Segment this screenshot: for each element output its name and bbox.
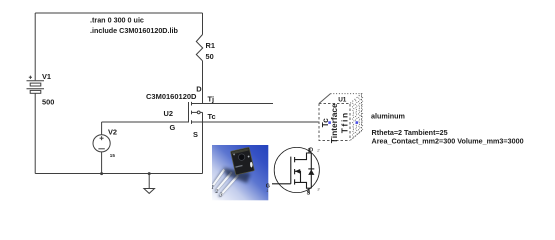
svg-text:15: 15 <box>110 153 116 158</box>
channel tick mid <box>191 111 193 115</box>
wire left lower <box>34 93 36 173</box>
body shadow <box>224 168 251 184</box>
package body <box>231 147 255 175</box>
svg-text:Area_Contact_mm2=300 Volume_mm: Area_Contact_mm2=300 Volume_mm3=3000 <box>372 136 524 145</box>
svg-text:3: 3 <box>219 193 223 199</box>
svg-text:500: 500 <box>42 98 54 107</box>
wire Tj net <box>192 103 274 105</box>
wire resistor to drain <box>202 61 204 104</box>
svg-text:2: 2 <box>215 189 218 195</box>
junction V2-bottom <box>100 172 103 175</box>
channel ticks <box>294 157 296 162</box>
diode cathode bar <box>308 168 314 170</box>
svg-text:R1: R1 <box>206 41 215 50</box>
mosfet symbol circle <box>272 147 319 193</box>
leg shadows <box>211 170 238 198</box>
body arrow line <box>295 171 301 182</box>
svg-text:G: G <box>170 123 176 132</box>
photo TO-247 package <box>211 145 269 200</box>
top-left slant <box>319 94 331 104</box>
diode vertical <box>310 153 312 188</box>
wire left upper <box>34 13 36 80</box>
drain path <box>295 153 312 160</box>
junction ground-bottom <box>148 172 151 175</box>
front face dashed <box>319 104 350 141</box>
channel tick bottom <box>191 120 193 124</box>
wire body/source vertical <box>202 112 204 173</box>
svg-text:C3M0160120D: C3M0160120D <box>146 92 197 101</box>
diode triangle <box>308 170 314 175</box>
svg-text:.include C3M0160120D.lib: .include C3M0160120D.lib <box>90 26 178 35</box>
svg-text:Tj: Tj <box>208 95 215 104</box>
svg-text:50: 50 <box>206 52 214 61</box>
wire Tc net <box>192 121 319 123</box>
svg-text:D: D <box>309 148 313 154</box>
D stub <box>308 148 310 153</box>
svg-text:U2: U2 <box>164 109 173 118</box>
svg-text:U1: U1 <box>338 96 347 103</box>
fins zigzag <box>353 103 355 139</box>
svg-text:.tran 0 300 0 uic: .tran 0 300 0 uic <box>90 16 144 25</box>
pin dot Tfin <box>356 121 359 124</box>
pin dot Tc-Tinterface <box>328 121 331 124</box>
legs <box>212 169 239 197</box>
mosfet U2 <box>189 102 203 174</box>
source path <box>295 182 312 188</box>
gate bar <box>290 157 292 184</box>
svg-text:V1: V1 <box>42 72 51 81</box>
wire top <box>35 12 202 14</box>
gate wire <box>272 183 291 185</box>
svg-text:V2: V2 <box>108 127 117 136</box>
resistor R1 <box>196 35 202 61</box>
svg-text:Tfin: Tfin <box>339 111 349 133</box>
right face dotted <box>350 94 362 141</box>
ground <box>144 174 155 194</box>
channel tick top <box>191 102 193 106</box>
svg-text:1: 1 <box>211 185 214 191</box>
battery V1 <box>27 76 45 94</box>
body arrow head <box>295 169 300 174</box>
wire gate <box>102 121 189 123</box>
svg-text:1: 1 <box>266 188 268 193</box>
svg-text:Tc: Tc <box>208 112 216 121</box>
svg-text:S: S <box>307 191 311 197</box>
svg-text:S: S <box>193 130 198 139</box>
body pin with bubble <box>192 111 198 113</box>
S stub <box>308 188 310 193</box>
heatsink U1 <box>319 94 363 141</box>
svg-text:D: D <box>196 84 202 93</box>
top face dotted <box>331 94 362 104</box>
voltage source V2 <box>93 122 110 174</box>
wire bottom <box>35 173 202 175</box>
svg-text:aluminum: aluminum <box>371 111 405 120</box>
gate bar <box>188 102 190 123</box>
wire right (top to resistor) <box>202 13 204 35</box>
